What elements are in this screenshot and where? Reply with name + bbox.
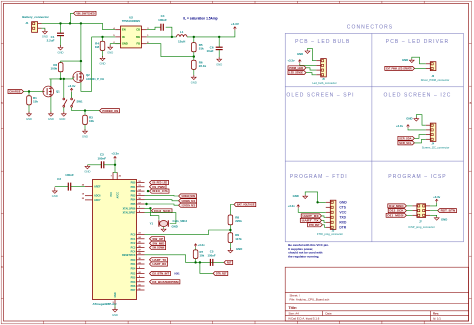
- ground cell5: [304, 195, 306, 196]
- svg-text:GND: GND: [59, 117, 65, 121]
- global label cell5 UART_TX: [300, 218, 321, 222]
- svg-text:SW_DOWN: SW_DOWN: [152, 246, 164, 250]
- power +3.3v at switch: [71, 88, 73, 91]
- wire R3 gnd: [84, 125, 86, 131]
- svg-text:CHARGE: CHARGE: [9, 90, 20, 94]
- svg-text:XTAL1/PB6: XTAL1/PB6: [123, 207, 136, 210]
- global label D2_BTN: [150, 271, 171, 275]
- wire SW pole1 feed: [63, 79, 65, 98]
- resistor R9: [228, 233, 233, 243]
- wire cell5 dtr: [322, 225, 325, 228]
- svg-text:EXT_PWM_LED_DRIVER: EXT_PWM_LED_DRIVER: [386, 67, 412, 71]
- global label SW_DOWN: [150, 246, 166, 250]
- svg-text:D11_MOSI: D11_MOSI: [387, 213, 403, 217]
- wire icsp rst: [430, 210, 438, 212]
- svg-text:CONNECTORS: CONNECTORS: [347, 25, 393, 31]
- svg-text:GND: GND: [115, 292, 117, 297]
- svg-text:PD1: PD1: [131, 263, 136, 266]
- global label PWM_LED: [288, 66, 306, 70]
- svg-text:File: Arduino_CPU_Board.sch: File: Arduino_CPU_Board.sch: [290, 298, 330, 302]
- svg-text:SW1: SW1: [77, 99, 84, 103]
- svg-text:150nF: 150nF: [208, 253, 216, 257]
- svg-text:the regulator running.: the regulator running.: [288, 254, 319, 258]
- ground at C3: [86, 165, 88, 166]
- svg-text:100k: 100k: [51, 67, 58, 71]
- svg-text:VCC: VCC: [339, 211, 347, 215]
- svg-text:UART_TX: UART_TX: [152, 258, 166, 262]
- svg-text:PC1: PC1: [131, 238, 136, 241]
- junction R4 top: [101, 36, 103, 38]
- svg-text:DTR_RST: DTR_RST: [216, 272, 227, 276]
- svg-text:+3.3v: +3.3v: [288, 204, 296, 208]
- svg-text:ICSP_prog_connector: ICSP_prog_connector: [408, 225, 435, 229]
- svg-text:J1: J1: [25, 21, 29, 25]
- svg-text:Q1: Q1: [56, 90, 60, 94]
- resistor R2: [58, 63, 63, 72]
- wire icsp left3: [406, 214, 412, 216]
- wire PC0 to divider: [145, 230, 231, 234]
- switch SW1: [63, 98, 65, 100]
- wire R6 gnd: [193, 69, 195, 76]
- inductor L1: [177, 35, 188, 37]
- svg-text:GND: GND: [112, 313, 118, 317]
- svg-text:PD4: PD4: [131, 268, 136, 271]
- svg-text:PB4: PB4: [131, 199, 136, 202]
- global label cell5 DTR: [308, 223, 323, 227]
- svg-text:UART_RX: UART_RX: [152, 262, 166, 266]
- svg-text:D2_BTN_INT: D2_BTN_INT: [152, 272, 169, 276]
- svg-text:GND: GND: [48, 117, 54, 121]
- wire XTAL1 to crystal: [145, 208, 159, 220]
- junction divider: [229, 229, 231, 231]
- wire U2 gnd: [110, 44, 120, 47]
- power +3.3v cell4: [407, 125, 409, 128]
- junction rail R5: [193, 36, 195, 38]
- svg-text:Date:: Date:: [326, 312, 333, 316]
- wire Q2 drain to IN: [81, 37, 92, 91]
- svg-text:D3_BUZZER/PWM: D3_BUZZER/PWM: [152, 280, 179, 284]
- capacitor C6: [216, 46, 223, 48]
- wire SW common: [72, 107, 100, 110]
- svg-text:+3.3v: +3.3v: [396, 124, 404, 128]
- svg-text:SCR_SCL: SCR_SCL: [399, 141, 412, 145]
- svg-text:PB1: PB1: [131, 186, 136, 189]
- ground cell6: [436, 216, 438, 219]
- svg-text:BAT_VOLTAGE: BAT_VOLTAGE: [237, 203, 255, 207]
- junction bus Q2: [80, 22, 82, 24]
- global label CHARGE: [8, 90, 24, 94]
- ground under crystal: [163, 228, 165, 231]
- global label SCREEN_SCK: [179, 199, 197, 203]
- pin GND bottom: [114, 300, 116, 305]
- svg-text:FTDI_prog_connector: FTDI_prog_connector: [317, 232, 343, 236]
- wire R8 bottom: [229, 225, 231, 233]
- svg-text:EN: EN: [122, 28, 126, 32]
- svg-text:IL = saturation 1.5Amp: IL = saturation 1.5Amp: [183, 17, 217, 21]
- svg-text:PCB – LED BULB: PCB – LED BULB: [295, 39, 350, 45]
- svg-text:+3.3v: +3.3v: [68, 84, 76, 88]
- svg-text:C2: C2: [57, 177, 61, 181]
- svg-text:GND: GND: [26, 117, 32, 121]
- svg-text:HX1: HX1: [175, 272, 181, 276]
- capacitor C1: [57, 32, 64, 34]
- svg-text:12uH: 12uH: [178, 40, 185, 44]
- global label SW_UP: [150, 237, 165, 241]
- svg-text:LED_SENSE: LED_SENSE: [289, 71, 303, 75]
- svg-text:J7: J7: [419, 221, 422, 224]
- pin VCC AVCC stubs: [112, 172, 114, 179]
- svg-text:GND: GND: [122, 42, 128, 46]
- svg-text:B: B: [470, 102, 472, 105]
- junction bus label: [69, 22, 71, 24]
- svg-text:PD5: PD5: [131, 277, 136, 280]
- wire RESET row: [145, 255, 225, 263]
- ground under Q1: [50, 112, 52, 114]
- ground cell4: [415, 118, 417, 119]
- global label SCR_SCL: [398, 141, 415, 145]
- svg-text:ADC7: ADC7: [94, 199, 101, 202]
- wire cell5 vcc: [298, 208, 326, 212]
- svg-text:SCREEN_MOSI: SCREEN_MOSI: [182, 194, 196, 198]
- svg-text:+3.3V: +3.3V: [231, 22, 239, 26]
- wire Q1 drain up: [50, 79, 52, 86]
- svg-text:1M: 1M: [95, 45, 100, 49]
- svg-text:VIN_SWITCHED: VIN_SWITCHED: [76, 11, 94, 15]
- svg-text:IN: IN: [122, 35, 125, 39]
- svg-text:51k: 51k: [199, 47, 204, 51]
- global label SCR_SDA: [398, 136, 415, 140]
- power +3.3v cell1: [299, 60, 301, 63]
- svg-text:GND: GND: [236, 247, 242, 251]
- svg-text:Q2: Q2: [86, 73, 90, 77]
- wire J1 pin2 to gnd: [42, 28, 45, 30]
- svg-text:AVCC: AVCC: [116, 192, 119, 199]
- svg-text:GND: GND: [52, 194, 58, 198]
- svg-text:DTR_RST: DTR_RST: [309, 223, 320, 227]
- wire cell1 gnd to pin1: [308, 49, 317, 61]
- svg-text:SW_MID: SW_MID: [152, 241, 164, 245]
- wire icsp gnd: [430, 215, 437, 217]
- global label RST: [224, 260, 233, 264]
- global label cell6 RST: [438, 209, 457, 213]
- svg-text:ADC6: ADC6: [94, 195, 101, 198]
- svg-text:D12_MISO: D12_MISO: [389, 204, 403, 208]
- svg-text:22: 22: [82, 198, 85, 200]
- global label D12_MISO: [388, 204, 407, 208]
- wire R5 top: [193, 37, 195, 43]
- wire C3 left: [87, 164, 101, 166]
- ground cell1: [307, 50, 309, 51]
- global label SCREEN_RES: [179, 203, 197, 207]
- svg-text:GND: GND: [293, 194, 299, 198]
- wire R1 gnd: [28, 105, 30, 113]
- global label D9_PWM: [150, 185, 167, 189]
- svg-text:VCC: VCC: [111, 192, 113, 197]
- wire Q1 source gnd: [50, 97, 52, 113]
- global label SCREEN_MOSI: [179, 194, 197, 198]
- connector J7 icsp: [417, 204, 426, 218]
- svg-text:Id: 1/1: Id: 1/1: [433, 317, 441, 321]
- wire icsp left2: [406, 210, 412, 212]
- svg-text:GND: GND: [100, 62, 106, 66]
- svg-text:+3.3v: +3.3v: [287, 59, 295, 63]
- junction cell5 gnd: [316, 201, 318, 203]
- svg-text:GND: GND: [441, 217, 447, 221]
- svg-text:PB0: PB0: [131, 182, 136, 185]
- global label UART_RX: [150, 262, 168, 266]
- svg-text:100nF: 100nF: [158, 18, 167, 22]
- resistor R5: [192, 43, 197, 52]
- svg-text:OLED SCREEN – SPI: OLED SCREEN – SPI: [286, 93, 354, 99]
- svg-text:117k: 117k: [235, 237, 242, 241]
- svg-text:SW: SW: [136, 35, 141, 39]
- pin AREF: [85, 186, 93, 188]
- svg-text:+3.3v: +3.3v: [198, 243, 206, 247]
- wire cell2 gnd pin1: [412, 57, 426, 64]
- svg-text:PB3: PB3: [131, 194, 136, 197]
- wire PB3 to screen mosi: [145, 194, 179, 197]
- global label VIN_SWITCHED: [74, 11, 97, 15]
- svg-text:10uF: 10uF: [206, 49, 213, 53]
- svg-text:19: 19: [82, 194, 85, 196]
- wire cell4 scl: [414, 139, 425, 143]
- svg-text:GND: GND: [82, 134, 88, 138]
- junction R3: [84, 109, 86, 111]
- svg-text:CB: CB: [136, 28, 140, 32]
- svg-text:RESET/PC6: RESET/PC6: [122, 254, 136, 257]
- wire cell1 label1: [306, 68, 316, 70]
- wire gnd bottom: [114, 305, 116, 309]
- svg-text:PROGRAM – FTDI: PROGRAM – FTDI: [290, 174, 348, 180]
- ground under MCU: [114, 307, 116, 309]
- svg-text:RST_BTN: RST_BTN: [441, 209, 456, 213]
- svg-text:U2: U2: [129, 15, 133, 19]
- svg-text:Battery_connector: Battery_connector: [22, 15, 49, 19]
- svg-text:Driver_PWM_connector: Driver_PWM_connector: [421, 78, 450, 82]
- wire R2 bottom: [60, 72, 62, 79]
- svg-text:Screen_I2C_connector: Screen_I2C_connector: [422, 146, 450, 150]
- svg-text:UART_RX: UART_RX: [303, 214, 319, 218]
- svg-text:GND: GND: [172, 224, 178, 228]
- resistor R4: [100, 41, 105, 50]
- svg-text:GND: GND: [58, 51, 64, 55]
- connectors section grid: [285, 33, 463, 241]
- global label EXT_PWM_LED_DRIVER: [385, 66, 415, 70]
- ground under R4: [102, 56, 104, 58]
- svg-text:PD7: PD7: [131, 289, 136, 292]
- svg-text:D9_PWM: D9_PWM: [152, 185, 165, 189]
- wire C1 up: [60, 23, 62, 33]
- svg-text:RST: RST: [227, 261, 232, 265]
- svg-text:10k: 10k: [200, 254, 205, 258]
- ground under SW1: [63, 112, 65, 114]
- svg-text:PB2: PB2: [131, 190, 136, 193]
- global label POWER_ON: [100, 109, 120, 113]
- power +3.3v at R7: [195, 244, 197, 247]
- svg-text:D10_CS: D10_CS: [152, 189, 168, 193]
- ic U1 ATmega328P body: [93, 180, 137, 300]
- svg-text:Rev:: Rev:: [433, 311, 439, 315]
- pin ADC6: [85, 195, 93, 197]
- wire R3 top: [84, 111, 86, 116]
- svg-text:D13_SCK: D13_SCK: [154, 209, 170, 213]
- svg-text:Cstls_SM12: Cstls_SM12: [173, 219, 188, 223]
- svg-text:7: 7: [111, 176, 113, 178]
- resistor R7: [193, 250, 198, 259]
- capacitor C3: [100, 161, 102, 168]
- wire icsp vcc: [430, 203, 437, 206]
- wire battery bus: [42, 23, 116, 29]
- capacitor C2: [67, 183, 69, 191]
- svg-text:PROGRAM – ICSP: PROGRAM – ICSP: [388, 174, 446, 180]
- ground under C1: [60, 45, 62, 47]
- junction bus C1: [59, 22, 61, 24]
- global label D10_CS: [150, 189, 170, 193]
- wire R2 top: [61, 61, 81, 63]
- wire C3 right: [104, 164, 115, 166]
- wire R9 gnd: [229, 243, 231, 250]
- wire cell4 sda: [414, 135, 425, 139]
- global label D11_MOSI: [386, 213, 406, 217]
- svg-text:GND: GND: [84, 170, 90, 174]
- svg-text:GND: GND: [216, 62, 222, 66]
- ground under R3: [84, 129, 86, 131]
- connector J3 ftdi: [330, 200, 336, 229]
- resistor R1: [27, 96, 32, 105]
- wire FB: [147, 44, 194, 57]
- svg-text:D: D: [1, 266, 3, 269]
- ground under R6: [193, 75, 195, 77]
- wire IN line: [92, 36, 116, 38]
- wire cell2 label: [415, 67, 426, 69]
- power +3.3v above MCU: [114, 156, 116, 159]
- ground under C6: [218, 57, 220, 59]
- svg-text:RXD: RXD: [339, 221, 347, 225]
- wire R5 bottom: [193, 52, 195, 57]
- junction gate R2: [60, 78, 62, 80]
- svg-text:TXD: TXD: [339, 216, 346, 220]
- svg-text:Size: A4: Size: A4: [289, 312, 300, 316]
- ic U2 TPS61040: [121, 26, 142, 48]
- junction FB divider: [193, 55, 195, 57]
- svg-text:AO3401_P_CH: AO3401_P_CH: [86, 77, 104, 81]
- junction R2 source: [80, 60, 82, 62]
- svg-text:Y1: Y1: [150, 222, 154, 226]
- svg-text:PD3: PD3: [131, 281, 136, 284]
- power +3.3V rail: [234, 27, 236, 30]
- svg-text:J6: J6: [431, 75, 434, 78]
- svg-text:PB5: PB5: [131, 203, 136, 206]
- global label cell5 UART_RX: [301, 214, 321, 218]
- ground under R1: [28, 112, 30, 114]
- wire cell4 gnd pin1: [416, 115, 426, 126]
- connector J6 led driver: [430, 62, 436, 71]
- svg-text:L1: L1: [180, 30, 184, 34]
- svg-text:2.2uF: 2.2uF: [47, 38, 55, 42]
- svg-text:PD0: PD0: [131, 259, 136, 262]
- connector J4 screen i2c: [430, 123, 436, 141]
- wire SW pole1 gnd: [63, 107, 65, 113]
- svg-text:DTR: DTR: [339, 226, 346, 230]
- wire R4 gnd: [102, 51, 104, 58]
- svg-text:GND: GND: [406, 117, 412, 121]
- wire R1 top: [28, 92, 30, 96]
- wire PB5 to screen res: [145, 204, 179, 205]
- wire DTR drop: [200, 262, 213, 273]
- junction PB2: [147, 190, 149, 192]
- global label SW_MID: [150, 241, 166, 245]
- global label D13_SCK: [151, 209, 172, 213]
- wire cell1 label2: [306, 73, 316, 75]
- svg-text:POWER_ON: POWER_ON: [102, 109, 118, 113]
- svg-text:100nF: 100nF: [65, 173, 74, 177]
- wire C2 left gnd: [55, 186, 69, 188]
- ground under R9: [229, 248, 231, 250]
- svg-text:100nF: 100nF: [97, 156, 106, 160]
- global label D13_SCK icsp: [388, 209, 406, 213]
- svg-text:GND: GND: [107, 50, 113, 54]
- svg-text:GND: GND: [191, 80, 197, 84]
- svg-text:SW_UP: SW_UP: [152, 237, 163, 241]
- wire crystal gnd: [163, 227, 165, 229]
- svg-text:GND: GND: [402, 58, 408, 62]
- svg-text:22.1k: 22.1k: [199, 64, 207, 68]
- svg-text:PC0: PC0: [131, 233, 136, 236]
- wire R4 top: [102, 37, 104, 41]
- svg-text:J4: J4: [431, 143, 434, 146]
- mcu right pins: [137, 182, 145, 184]
- transistor Q1: [43, 86, 54, 97]
- wire cell4 3v3 pin2: [408, 128, 426, 130]
- wire cell5 gnd: [305, 192, 326, 202]
- svg-text:D13_SCK: D13_SCK: [390, 209, 404, 213]
- svg-text:UART_TX: UART_TX: [302, 219, 319, 223]
- svg-text:SCR_SDA: SCR_SDA: [399, 136, 411, 140]
- wire cell5 tx: [322, 220, 326, 222]
- svg-text:PC3: PC3: [131, 247, 136, 250]
- junction rail C6: [218, 36, 220, 38]
- svg-text:PD6: PD6: [131, 285, 136, 288]
- wire R7 bottom: [195, 259, 197, 263]
- svg-text:+3.3v: +3.3v: [433, 195, 441, 199]
- global label BAT_VOLTAGE: [234, 202, 256, 206]
- power +3.3v cell6: [436, 199, 438, 202]
- svg-text:GND: GND: [339, 201, 347, 205]
- wire Q2 gate drop: [72, 77, 74, 79]
- junction XTAL1: [149, 207, 151, 209]
- capacitor C4: [160, 24, 162, 31]
- wire divider top label: [230, 205, 234, 216]
- wire R6 top: [193, 57, 195, 61]
- power +3.3v cell5: [297, 205, 299, 208]
- junction C3 vcc: [114, 164, 116, 166]
- svg-text:XTAL2/PB7: XTAL2/PB7: [123, 212, 136, 215]
- global label D8_RED_LED: [150, 180, 169, 184]
- pin ADC7: [85, 199, 93, 201]
- svg-text:220k: 220k: [235, 219, 242, 223]
- wire 3v3 rail: [187, 30, 235, 37]
- wire SW out: [147, 36, 177, 38]
- svg-text:PD2: PD2: [131, 273, 136, 276]
- wire C6 top: [218, 37, 220, 47]
- wire XTAL2 to crystal: [145, 213, 176, 224]
- svg-text:FB: FB: [137, 42, 141, 46]
- wire label drop: [71, 13, 74, 23]
- wire gate row: [49, 78, 73, 80]
- wire bus to Q2: [80, 23, 82, 71]
- wire C4 to SW: [166, 27, 172, 37]
- global label LED_SENSE: [288, 71, 306, 75]
